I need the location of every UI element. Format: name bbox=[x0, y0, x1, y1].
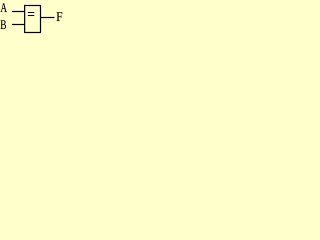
node B bbox=[0, 20, 6, 29]
node F bbox=[57, 12, 63, 21]
wire bbox=[12, 11, 25, 13]
wire bbox=[41, 17, 55, 19]
XNOR equivalence gate U1 (IEC box) bbox=[25, 6, 41, 33]
node A bbox=[1, 3, 7, 12]
gate function label "=" bbox=[28, 12, 35, 16]
wire bbox=[12, 24, 25, 26]
